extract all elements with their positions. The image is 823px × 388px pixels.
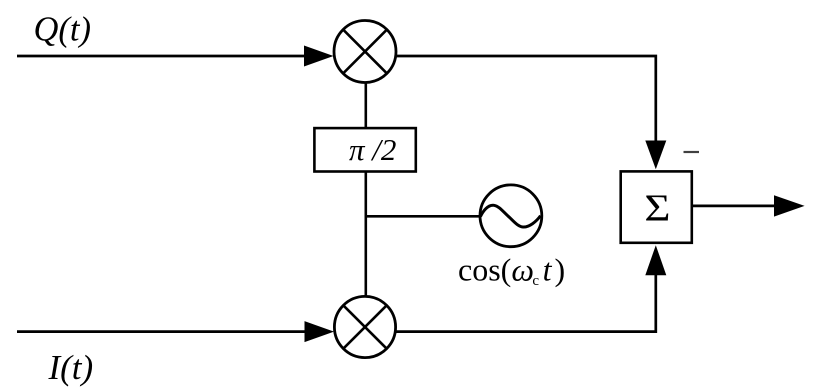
svg-text:Σ: Σ: [644, 187, 670, 229]
svg-text:I(t): I(t): [48, 348, 94, 387]
svg-text:Q(t): Q(t): [34, 11, 91, 49]
svg-text:π /2: π /2: [349, 132, 396, 167]
svg-text:cos(ωct): cos(ωct): [458, 252, 565, 290]
